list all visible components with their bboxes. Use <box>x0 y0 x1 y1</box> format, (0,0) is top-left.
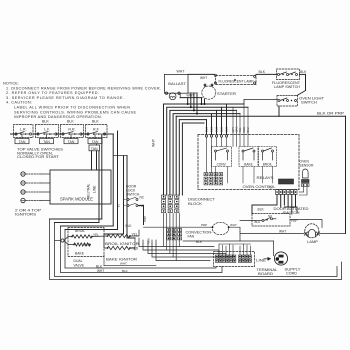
svg-text:BLU: BLU <box>246 127 250 132</box>
svg-text:NC: NC <box>140 195 145 199</box>
svg-text:ORG: ORG <box>235 127 239 133</box>
svg-text:L.R.: L.R. <box>20 128 27 132</box>
svg-text:BLK: BLK <box>96 264 103 268</box>
svg-text:BAKE: BAKE <box>75 252 85 256</box>
svg-text:BLK: BLK <box>67 119 74 123</box>
svg-text:WHT: WHT <box>200 76 207 80</box>
svg-text:PRP: PRP <box>201 223 207 227</box>
svg-text:FLUORESCENT LAMP: FLUORESCENT LAMP <box>219 80 255 84</box>
svg-text:SWITCH: SWITCH <box>126 193 140 197</box>
svg-text:TAN: TAN <box>68 140 75 144</box>
svg-text:IMPROPER AND DANGEROUS OPERATI: IMPROPER AND DANGEROUS OPERATION. <box>14 115 102 119</box>
svg-text:BLK: BLK <box>225 127 229 132</box>
svg-text:4. CAUTION:: 4. CAUTION: <box>6 101 32 105</box>
svg-text:VALVE: VALVE <box>74 264 85 268</box>
svg-text:BROIL: BROIL <box>75 229 85 233</box>
svg-text:BLK: BLK <box>215 127 219 132</box>
svg-text:BLK: BLK <box>205 127 209 132</box>
svg-text:LABEL ALL WIRES PRIOR TO DISCO: LABEL ALL WIRES PRIOR TO DISCONNECTION W… <box>14 106 130 110</box>
svg-text:WHT: WHT <box>279 229 286 233</box>
svg-text:BLU: BLU <box>147 238 151 243</box>
svg-text:SERVICING CONTROLS. WIRING PRO: SERVICING CONTROLS. WIRING PROBLEMS CAN … <box>14 110 136 114</box>
svg-text:BLK: BLK <box>220 127 224 132</box>
svg-text:TAN: TAN <box>43 140 50 144</box>
svg-text:DOOR ACTUATED: DOOR ACTUATED <box>274 207 310 211</box>
svg-text:WHT: WHT <box>187 94 195 98</box>
svg-text:1. DISCONNECT RANGE FROM POWER: 1. DISCONNECT RANGE FROM POWER BEFORE RE… <box>6 86 161 90</box>
svg-text:P2: P2 <box>269 186 273 190</box>
svg-text:LINE: LINE <box>93 185 97 193</box>
svg-text:NO: NO <box>140 204 145 208</box>
svg-text:R.R.: R.R. <box>68 128 75 132</box>
svg-text:TAN: TAN <box>91 147 98 151</box>
svg-text:FAN: FAN <box>188 235 195 239</box>
svg-text:BLK: BLK <box>210 127 214 132</box>
svg-text:L.F.: L.F. <box>44 128 50 132</box>
svg-text:3. SERVICER PLEASE RETURN DIAG: 3. SERVICER PLEASE RETURN DIAGRAM TO RAN… <box>6 96 124 100</box>
svg-text:BLK: BLK <box>258 207 265 211</box>
svg-text:CONV.: CONV. <box>217 162 227 166</box>
svg-text:WHT: WHT <box>97 269 104 273</box>
svg-text:PRP: PRP <box>291 219 298 223</box>
svg-text:SENSOR: SENSOR <box>300 164 315 168</box>
svg-text:TAN: TAN <box>19 140 26 144</box>
svg-text:SWITCH: SWITCH <box>301 100 318 104</box>
svg-text:YEL: YEL <box>93 233 99 237</box>
svg-text:BLK: BLK <box>255 220 261 224</box>
svg-text:BALLAST: BALLAST <box>168 82 186 86</box>
svg-text:2. REFER ONLY TO FEATURES EQUI: 2. REFER ONLY TO FEATURES EQUIPPED. <box>6 91 99 95</box>
svg-text:BLK: BLK <box>259 70 266 74</box>
svg-text:BROIL IGNITOR: BROIL IGNITOR <box>105 242 140 246</box>
svg-text:CORD: CORD <box>286 272 298 276</box>
svg-text:YEL: YEL <box>132 232 138 236</box>
svg-text:BLK: BLK <box>126 224 133 228</box>
svg-text:DISCONNECT: DISCONNECT <box>188 198 216 202</box>
svg-text:STARTER: STARTER <box>217 92 236 96</box>
svg-text:CLOSED FOR START: CLOSED FOR START <box>17 154 60 159</box>
svg-text:SWITCH: SWITCH <box>283 211 301 215</box>
svg-text:BLK: BLK <box>42 119 49 123</box>
svg-text:BAKE: BAKE <box>244 162 253 166</box>
svg-text:LINE: LINE <box>256 258 266 262</box>
svg-text:TAN: TAN <box>92 140 99 144</box>
svg-text:BLK OR PRP: BLK OR PRP <box>317 112 345 116</box>
svg-text:R.F.: R.F. <box>93 128 100 132</box>
svg-text:WHT: WHT <box>177 70 186 74</box>
svg-text:LAMP SWITCH: LAMP SWITCH <box>274 85 300 89</box>
svg-text:WHT: WHT <box>120 261 127 265</box>
svg-text:BOARD: BOARD <box>258 272 274 276</box>
svg-text:BLK: BLK <box>300 70 307 74</box>
svg-text:BLK: BLK <box>196 240 203 244</box>
svg-text:IGNITORS: IGNITORS <box>15 211 36 216</box>
svg-text:BLK: BLK <box>92 119 99 123</box>
svg-text:BLK: BLK <box>122 269 128 273</box>
svg-text:DUAL: DUAL <box>74 259 83 263</box>
svg-text:LAMP: LAMP <box>307 240 319 244</box>
svg-text:PRP: PRP <box>143 216 147 222</box>
svg-text:YEL: YEL <box>238 127 242 132</box>
svg-text:RED: RED <box>132 246 139 250</box>
svg-text:RED: RED <box>84 243 91 247</box>
svg-text:RED: RED <box>242 127 246 133</box>
svg-text:GRY: GRY <box>231 127 235 133</box>
svg-text:BLOCK: BLOCK <box>188 202 203 206</box>
svg-text:NEUTRAL: NEUTRAL <box>87 183 91 199</box>
svg-text:WHT: WHT <box>230 223 237 227</box>
svg-text:NOTICE:: NOTICE: <box>3 82 19 86</box>
svg-text:WHT: WHT <box>152 138 156 147</box>
svg-text:RELAYS: RELAYS <box>257 175 274 180</box>
svg-text:BROIL: BROIL <box>263 162 273 166</box>
